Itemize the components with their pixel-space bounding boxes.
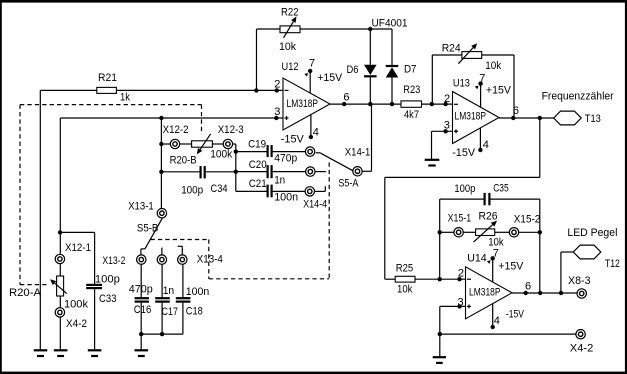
svg-text:U14: U14: [467, 253, 487, 265]
svg-text:C20: C20: [249, 159, 267, 171]
svg-text:LM318P: LM318P: [287, 98, 319, 110]
svg-text:C18: C18: [186, 305, 203, 317]
svg-text:+15V: +15V: [317, 72, 343, 84]
svg-text:R26: R26: [479, 210, 498, 222]
svg-text:100p: 100p: [454, 183, 475, 195]
svg-text:T13: T13: [585, 113, 601, 125]
svg-text:X12-3: X12-3: [218, 124, 244, 136]
svg-text:X4-2: X4-2: [570, 343, 594, 355]
svg-text:3: 3: [458, 297, 464, 309]
svg-text:C35: C35: [493, 182, 509, 194]
svg-text:100p: 100p: [181, 185, 203, 197]
svg-text:10k: 10k: [397, 284, 413, 296]
svg-text:LM318P: LM318P: [469, 287, 501, 299]
svg-text:-15V: -15V: [281, 134, 305, 146]
svg-text:7: 7: [493, 248, 499, 260]
svg-text:LM318P: LM318P: [455, 111, 487, 123]
svg-text:10k: 10k: [279, 41, 296, 53]
svg-text:U12: U12: [282, 61, 299, 73]
svg-text:1k: 1k: [120, 92, 130, 104]
svg-text:X15-2: X15-2: [514, 213, 541, 225]
svg-text:1n: 1n: [163, 285, 175, 297]
svg-text:S5-B: S5-B: [137, 222, 159, 234]
svg-text:T12: T12: [605, 258, 620, 270]
svg-text:X4-2: X4-2: [66, 318, 87, 330]
svg-text:R20-B: R20-B: [170, 155, 197, 167]
svg-text:X13-2: X13-2: [102, 255, 125, 267]
svg-text:1n: 1n: [274, 175, 285, 187]
svg-text:LED Pegel: LED Pegel: [567, 227, 617, 239]
svg-text:6: 6: [525, 281, 531, 293]
svg-text:R21: R21: [98, 72, 117, 84]
svg-text:4: 4: [494, 315, 500, 327]
svg-text:+15V: +15V: [498, 260, 524, 272]
svg-text:U13: U13: [453, 77, 470, 89]
svg-text:Frequenzzähler: Frequenzzähler: [542, 91, 614, 103]
svg-text:3: 3: [444, 120, 450, 132]
svg-text:D6: D6: [347, 64, 359, 76]
svg-text:C33: C33: [99, 293, 117, 305]
svg-text:100n: 100n: [274, 191, 298, 203]
svg-text:6: 6: [343, 92, 349, 104]
svg-text:3: 3: [274, 106, 280, 118]
svg-text:-15V: -15V: [506, 309, 525, 321]
svg-text:R23: R23: [403, 84, 420, 96]
svg-text:X12-2: X12-2: [163, 124, 189, 136]
svg-text:C16: C16: [134, 304, 152, 316]
svg-text:100k: 100k: [64, 299, 88, 311]
svg-text:100k: 100k: [210, 149, 232, 161]
svg-text:X8-3: X8-3: [568, 275, 591, 287]
svg-text:2: 2: [458, 268, 464, 280]
svg-text:2: 2: [274, 79, 280, 91]
svg-text:D7: D7: [404, 64, 417, 76]
svg-text:X15-1: X15-1: [448, 213, 472, 225]
svg-text:4: 4: [313, 127, 319, 139]
svg-text:10k: 10k: [485, 60, 501, 72]
svg-text:X14-1: X14-1: [345, 146, 371, 158]
svg-text:X12-1: X12-1: [65, 242, 91, 254]
svg-text:R24: R24: [442, 42, 461, 54]
svg-text:7: 7: [309, 58, 315, 70]
svg-text:X13-1: X13-1: [128, 201, 154, 213]
svg-text:470p: 470p: [129, 283, 153, 295]
svg-text:C34: C34: [211, 183, 228, 195]
svg-text:C21: C21: [249, 178, 267, 190]
svg-text:470p: 470p: [274, 153, 297, 165]
svg-text:2: 2: [444, 93, 450, 105]
svg-text:R25: R25: [396, 262, 414, 274]
svg-text:R22: R22: [281, 6, 299, 18]
svg-text:-15V: -15V: [452, 147, 476, 159]
svg-text:R20-A: R20-A: [9, 287, 42, 299]
svg-text:4k7: 4k7: [404, 109, 419, 121]
svg-text:X13-4: X13-4: [197, 254, 223, 266]
svg-text:100n: 100n: [186, 286, 210, 298]
svg-text:C17: C17: [162, 306, 179, 318]
svg-text:100p: 100p: [95, 274, 120, 286]
svg-text:7: 7: [479, 73, 485, 85]
svg-text:UF4001: UF4001: [372, 17, 408, 29]
svg-text:+15V: +15V: [486, 85, 512, 97]
svg-text:4: 4: [483, 139, 489, 151]
svg-text:6: 6: [513, 105, 519, 117]
svg-text:S5-A: S5-A: [338, 178, 359, 190]
svg-text:X14-4: X14-4: [303, 198, 327, 210]
svg-text:C19: C19: [248, 139, 266, 151]
